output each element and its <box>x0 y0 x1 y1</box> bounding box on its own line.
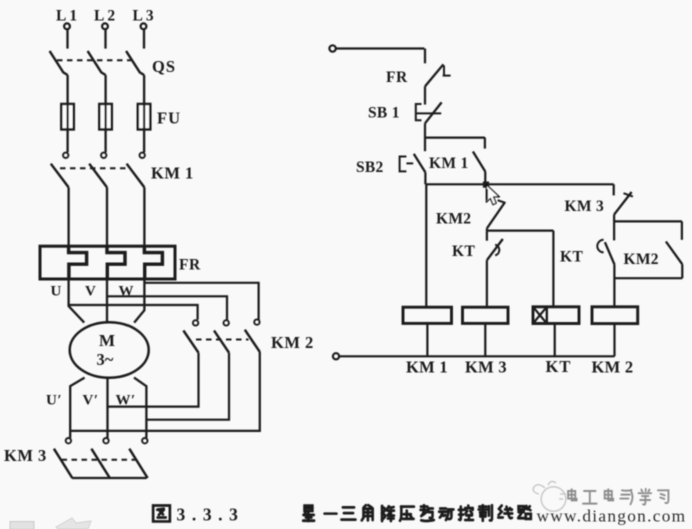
svg-text:KM 2: KM 2 <box>592 358 634 377</box>
svg-text:KT: KT <box>546 357 572 376</box>
svg-text:KM 2: KM 2 <box>271 333 314 352</box>
svg-text:FU: FU <box>157 109 181 128</box>
svg-text:U: U <box>51 284 62 300</box>
svg-text:FR: FR <box>179 257 201 274</box>
svg-text:KT: KT <box>560 249 584 266</box>
svg-text:KM 1: KM 1 <box>429 155 469 172</box>
svg-text:U′: U′ <box>46 393 62 409</box>
svg-text:L 3: L 3 <box>133 8 154 25</box>
svg-text:FR: FR <box>386 69 408 86</box>
svg-text:KM 3: KM 3 <box>465 358 507 377</box>
svg-text:KM2: KM2 <box>624 251 659 268</box>
svg-text:3.3.3: 3.3.3 <box>177 505 245 525</box>
svg-text:www.diangon.com: www.diangon.com <box>537 506 687 525</box>
svg-text:KM 1: KM 1 <box>406 358 448 377</box>
svg-text:KM 1: KM 1 <box>151 164 194 183</box>
svg-text:3~: 3~ <box>97 350 114 369</box>
svg-text:KM 3: KM 3 <box>4 446 47 465</box>
svg-text:SB2: SB2 <box>356 159 384 176</box>
svg-text:M: M <box>99 331 115 350</box>
svg-text:L 2: L 2 <box>94 8 115 25</box>
svg-text:KM2: KM2 <box>436 211 471 228</box>
svg-text:KM 3: KM 3 <box>565 198 605 215</box>
svg-text:QS: QS <box>152 57 176 76</box>
svg-text:V′: V′ <box>83 393 99 409</box>
svg-text:V: V <box>85 284 96 300</box>
svg-text:SB 1: SB 1 <box>368 105 400 122</box>
svg-text:KT: KT <box>452 243 476 260</box>
svg-text:L 1: L 1 <box>56 8 77 25</box>
